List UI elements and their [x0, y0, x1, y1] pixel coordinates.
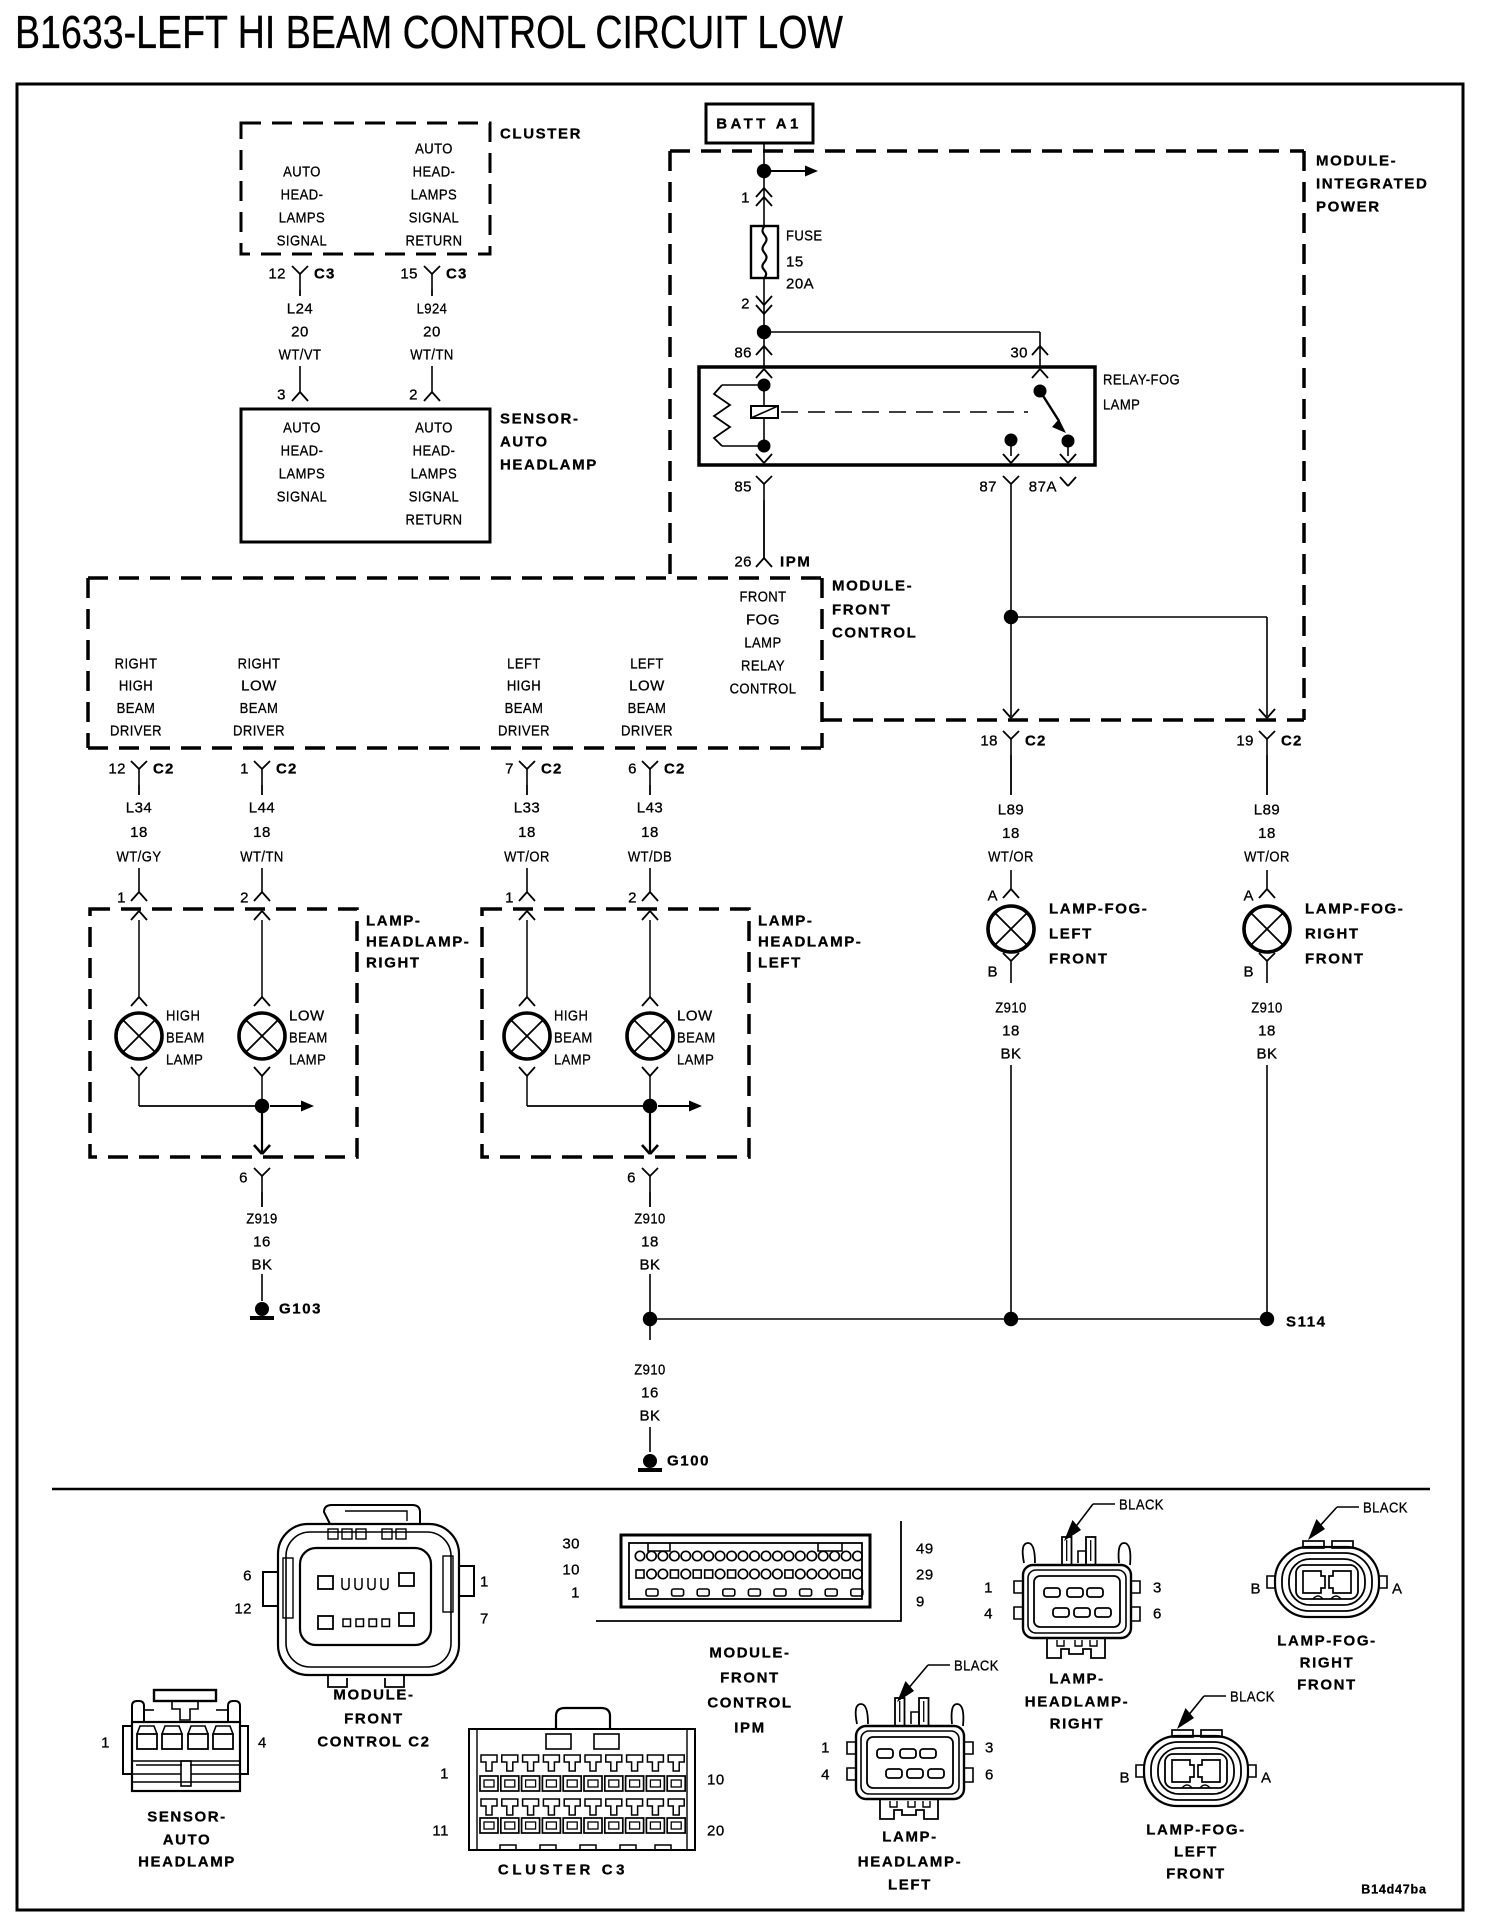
svg-text:HEADLAMP-: HEADLAMP- — [758, 933, 862, 950]
module-integrated power box — [670, 149, 1304, 153]
svg-text:4: 4 — [984, 1605, 993, 1622]
wire 85 to IPM 26 — [763, 500, 765, 558]
high beam lamp — [116, 1013, 162, 1059]
ground G100 — [643, 1454, 657, 1468]
svg-text:LAMP-FOG-: LAMP-FOG- — [1049, 900, 1148, 917]
svg-text:20A: 20A — [786, 275, 814, 292]
svg-text:AUTO: AUTO — [415, 419, 453, 436]
svg-text:LAMP-FOG-: LAMP-FOG- — [1146, 1821, 1245, 1838]
svg-text:6: 6 — [627, 1169, 636, 1186]
svg-text:10: 10 — [707, 1771, 725, 1788]
sensor-auto headlamp connector view — [123, 1690, 248, 1791]
svg-text:BEAM: BEAM — [117, 699, 156, 716]
svg-text:LAMP: LAMP — [166, 1051, 203, 1068]
relay exit chevrons — [756, 454, 764, 463]
module-front control IPM connector view — [621, 1535, 870, 1607]
svg-text:FRONT: FRONT — [344, 1710, 404, 1727]
svg-text:18: 18 — [980, 732, 998, 749]
wire L-circuit pin 15 — [431, 290, 433, 296]
svg-text:HEADLAMP-: HEADLAMP- — [366, 933, 470, 950]
svg-text:RIGHT: RIGHT — [1300, 1654, 1355, 1671]
svg-text:FRONT: FRONT — [739, 588, 786, 605]
svg-text:RIGHT: RIGHT — [366, 954, 421, 971]
headlamp pin 2 — [261, 868, 263, 892]
svg-text:HEADLAMP: HEADLAMP — [500, 456, 598, 473]
svg-text:LAMP-: LAMP- — [882, 1828, 938, 1845]
svg-text:FRONT: FRONT — [1166, 1865, 1226, 1882]
svg-text:RIGHT: RIGHT — [238, 655, 281, 672]
svg-text:B: B — [1243, 963, 1254, 980]
svg-text:LEFT: LEFT — [888, 1876, 932, 1893]
junction fuse out — [757, 325, 771, 339]
svg-text:1: 1 — [440, 1765, 449, 1782]
svg-text:BEAM: BEAM — [677, 1029, 716, 1046]
cluster box — [241, 123, 490, 254]
svg-text:16: 16 — [641, 1384, 659, 1401]
svg-text:B: B — [1119, 1769, 1130, 1786]
svg-text:HIGH: HIGH — [166, 1007, 200, 1024]
svg-text:WT/DB: WT/DB — [628, 848, 672, 865]
svg-text:1: 1 — [505, 889, 514, 906]
svg-text:LOW: LOW — [677, 1007, 713, 1024]
entry chevrons into headlamp box — [519, 911, 527, 920]
wire batt to fuse — [763, 143, 765, 226]
svg-text:BLACK: BLACK — [954, 1657, 999, 1674]
svg-text:18: 18 — [253, 824, 271, 841]
svg-text:SENSOR-: SENSOR- — [147, 1808, 227, 1825]
svg-text:RIGHT: RIGHT — [1305, 925, 1360, 942]
splice S114 — [1260, 1312, 1274, 1326]
svg-text:L89: L89 — [998, 801, 1025, 818]
svg-text:AUTO: AUTO — [283, 163, 321, 180]
svg-text:AUTO: AUTO — [415, 140, 453, 157]
svg-text:L44: L44 — [249, 799, 276, 816]
svg-text:86: 86 — [734, 344, 752, 361]
wire to G103 — [261, 1274, 263, 1301]
svg-text:RETURN: RETURN — [406, 511, 463, 528]
svg-text:7: 7 — [480, 1610, 489, 1627]
svg-text:FRONT: FRONT — [832, 601, 892, 618]
svg-text:LAMP-: LAMP- — [758, 912, 814, 929]
svg-text:INTEGRATED: INTEGRATED — [1316, 175, 1428, 192]
svg-text:DRIVER: DRIVER — [498, 721, 550, 738]
svg-text:1: 1 — [984, 1579, 993, 1596]
svg-text:4: 4 — [821, 1766, 830, 1783]
BATT A1 feed box — [706, 104, 813, 143]
svg-text:SIGNAL: SIGNAL — [277, 488, 327, 505]
svg-text:HIGH: HIGH — [554, 1007, 588, 1024]
svg-text:A: A — [1243, 887, 1254, 904]
svg-text:85: 85 — [734, 478, 752, 495]
svg-text:A: A — [1392, 1580, 1403, 1597]
lamp bottom chevrons — [131, 1067, 139, 1076]
sensor pin 2 — [431, 366, 433, 392]
ground G103 — [255, 1302, 269, 1316]
svg-text:DRIVER: DRIVER — [110, 721, 162, 738]
svg-text:6: 6 — [239, 1169, 248, 1186]
relay coil resistor — [722, 384, 764, 386]
svg-text:6: 6 — [628, 760, 637, 777]
svg-text:AUTO: AUTO — [500, 433, 549, 450]
lamp-fog-right-front connector view — [1267, 1541, 1387, 1617]
lamp common wires — [526, 1076, 528, 1106]
svg-text:CLUSTER C3: CLUSTER C3 — [498, 1861, 628, 1878]
svg-text:BEAM: BEAM — [240, 699, 279, 716]
svg-text:18: 18 — [1002, 1022, 1020, 1039]
svg-text:WT/GY: WT/GY — [117, 848, 162, 865]
headlamp pin 1 — [138, 868, 140, 892]
fog ground wire — [1266, 1065, 1268, 1319]
svg-text:RELAY: RELAY — [741, 657, 785, 674]
svg-text:18: 18 — [1258, 1022, 1276, 1039]
svg-text:FRONT: FRONT — [1297, 1676, 1357, 1693]
svg-text:20: 20 — [423, 323, 441, 340]
svg-text:LAMP-FOG-: LAMP-FOG- — [1305, 900, 1404, 917]
svg-text:HEADLAMP: HEADLAMP — [138, 1853, 236, 1870]
svg-text:LAMP: LAMP — [1103, 396, 1140, 413]
fog ground wire — [1010, 1065, 1012, 1319]
svg-text:Z919: Z919 — [246, 1210, 277, 1227]
svg-text:BEAM: BEAM — [505, 699, 544, 716]
svg-text:BLACK: BLACK — [1363, 1499, 1408, 1516]
svg-text:20: 20 — [707, 1822, 725, 1839]
svg-text:LEFT: LEFT — [1174, 1843, 1218, 1860]
svg-text:B14d47ba: B14d47ba — [1361, 1883, 1427, 1897]
svg-text:LEFT: LEFT — [507, 655, 541, 672]
svg-text:C3: C3 — [446, 265, 468, 282]
splice junction Z910 — [643, 1312, 657, 1326]
svg-text:RELAY-FOG: RELAY-FOG — [1103, 371, 1180, 388]
svg-text:C2: C2 — [664, 760, 686, 777]
svg-text:WT/OR: WT/OR — [988, 848, 1034, 865]
svg-text:SIGNAL: SIGNAL — [277, 232, 327, 249]
svg-text:S114: S114 — [1286, 1313, 1327, 1330]
junction in headlamp — [255, 1099, 269, 1113]
sensor-auto headlamp box — [241, 409, 490, 542]
relay-fog lamp box — [699, 367, 1095, 465]
svg-text:1: 1 — [480, 1573, 489, 1590]
svg-text:POWER: POWER — [1316, 198, 1381, 215]
svg-text:LEFT: LEFT — [1049, 925, 1093, 942]
module-front control C2 connector view — [263, 1505, 474, 1687]
entry chevrons into headlamp box — [131, 911, 139, 920]
cluster C3 connector view — [469, 1708, 695, 1850]
svg-text:4: 4 — [258, 1734, 267, 1751]
svg-text:16: 16 — [253, 1233, 271, 1250]
svg-text:CONTROL: CONTROL — [707, 1694, 792, 1711]
lamp-headlamp-right connector view — [1014, 1537, 1140, 1658]
relay contact — [1034, 385, 1047, 398]
svg-text:1: 1 — [821, 1739, 830, 1756]
svg-text:18: 18 — [1258, 825, 1276, 842]
relay coil wire — [763, 380, 765, 406]
svg-text:RIGHT: RIGHT — [115, 655, 158, 672]
svg-text:L43: L43 — [637, 799, 664, 816]
svg-text:C2: C2 — [153, 760, 175, 777]
svg-text:L924: L924 — [417, 300, 448, 317]
lamp common wires — [138, 1076, 140, 1106]
svg-text:WT/OR: WT/OR — [1244, 848, 1290, 865]
svg-text:DRIVER: DRIVER — [233, 721, 285, 738]
relay pin 87 stub — [1005, 434, 1018, 447]
svg-text:CONTROL C2: CONTROL C2 — [317, 1733, 430, 1750]
svg-text:HEAD-: HEAD- — [413, 442, 456, 459]
svg-text:HIGH: HIGH — [119, 677, 153, 694]
svg-text:WT/TN: WT/TN — [410, 346, 453, 363]
svg-text:WT/VT: WT/VT — [279, 346, 322, 363]
svg-text:MODULE-: MODULE- — [333, 1686, 414, 1703]
IPM bracket — [596, 1521, 901, 1621]
svg-text:BEAM: BEAM — [289, 1029, 328, 1046]
lamp-headlamp-left connector view — [847, 1698, 973, 1819]
svg-text:LAMPS: LAMPS — [411, 465, 457, 482]
splice on fog left — [1004, 1312, 1018, 1326]
svg-text:HIGH: HIGH — [507, 677, 541, 694]
svg-text:WT/TN: WT/TN — [240, 848, 283, 865]
svg-text:6: 6 — [1153, 1605, 1162, 1622]
svg-text:1: 1 — [117, 889, 126, 906]
svg-text:3: 3 — [985, 1739, 994, 1756]
arrow right inside headlamp — [658, 1105, 692, 1107]
svg-text:FRONT: FRONT — [1049, 950, 1109, 967]
svg-text:12: 12 — [268, 265, 286, 282]
svg-text:11: 11 — [432, 1822, 449, 1839]
svg-text:IPM: IPM — [734, 1719, 765, 1736]
module-front control box — [88, 576, 822, 580]
svg-text:C2: C2 — [276, 760, 298, 777]
svg-text:LAMP: LAMP — [289, 1051, 326, 1068]
svg-text:87: 87 — [979, 478, 997, 495]
svg-text:C2: C2 — [1281, 732, 1303, 749]
svg-text:HEAD-: HEAD- — [281, 442, 324, 459]
exit arrows at MIP bottom — [1003, 709, 1011, 718]
svg-text:3: 3 — [277, 386, 286, 403]
svg-text:15: 15 — [400, 265, 418, 282]
svg-text:18: 18 — [1002, 825, 1020, 842]
svg-text:SENSOR-: SENSOR- — [500, 410, 580, 427]
relay coil element — [751, 406, 778, 418]
lamp-fog right front — [1244, 906, 1290, 952]
wires to lamps — [138, 920, 140, 997]
svg-text:L89: L89 — [1254, 801, 1281, 818]
svg-text:BATT A1: BATT A1 — [716, 115, 801, 132]
svg-text:AUTO: AUTO — [163, 1831, 212, 1848]
svg-text:6: 6 — [985, 1766, 994, 1783]
svg-text:30: 30 — [562, 1535, 580, 1552]
svg-text:1: 1 — [101, 1734, 110, 1751]
svg-text:HEADLAMP-: HEADLAMP- — [1025, 1693, 1129, 1710]
svg-text:LAMP: LAMP — [677, 1051, 714, 1068]
svg-text:9: 9 — [916, 1593, 925, 1610]
svg-text:12: 12 — [108, 760, 126, 777]
svg-text:LAMP-FOG-: LAMP-FOG- — [1277, 1632, 1376, 1649]
svg-text:BK: BK — [1000, 1045, 1021, 1062]
svg-text:1: 1 — [571, 1584, 580, 1601]
headlamp pin 1 — [526, 868, 528, 892]
svg-text:10: 10 — [562, 1561, 580, 1578]
svg-text:RIGHT: RIGHT — [1050, 1715, 1105, 1732]
svg-text:LOW: LOW — [289, 1007, 325, 1024]
svg-text:LAMPS: LAMPS — [279, 209, 325, 226]
arrow to right from batt junction — [768, 170, 808, 172]
svg-text:1: 1 — [240, 760, 249, 777]
svg-text:LAMPS: LAMPS — [279, 465, 325, 482]
fog lamp pin A — [1010, 870, 1012, 889]
lamp-fog-left-front connector view — [1136, 1730, 1256, 1806]
svg-text:L34: L34 — [126, 799, 153, 816]
svg-text:Z910: Z910 — [1251, 999, 1282, 1016]
lamp-fog left front — [988, 906, 1034, 952]
svg-text:BK: BK — [251, 1256, 272, 1273]
svg-text:B1633-LEFT HI BEAM CONTROL CIR: B1633-LEFT HI BEAM CONTROL CIRCUIT LOW — [15, 6, 843, 58]
fog lamp pin B — [1259, 953, 1267, 961]
fog lamp pin A — [1266, 870, 1268, 889]
svg-text:G100: G100 — [667, 1452, 710, 1469]
svg-text:BK: BK — [1256, 1045, 1277, 1062]
lamp-headlamp-right box — [90, 909, 357, 1157]
svg-text:2: 2 — [240, 889, 249, 906]
svg-text:FOG: FOG — [746, 611, 780, 628]
splice bus wire — [650, 1318, 1267, 1320]
wire fuse to relay — [763, 278, 765, 367]
svg-text:DRIVER: DRIVER — [621, 721, 673, 738]
svg-text:2: 2 — [628, 889, 637, 906]
svg-text:18: 18 — [518, 824, 536, 841]
relay link dashed — [781, 411, 1028, 413]
wire to relay pin 30 — [764, 331, 1040, 333]
svg-text:L33: L33 — [514, 799, 541, 816]
svg-text:MODULE-: MODULE- — [832, 577, 913, 594]
svg-text:2: 2 — [741, 295, 750, 312]
junction at batt feed — [757, 164, 771, 178]
svg-text:BK: BK — [639, 1256, 660, 1273]
svg-text:18: 18 — [130, 824, 148, 841]
svg-text:12: 12 — [234, 1600, 252, 1617]
svg-text:RETURN: RETURN — [406, 232, 463, 249]
svg-text:L24: L24 — [287, 300, 314, 317]
svg-text:CONTROL: CONTROL — [730, 680, 797, 697]
svg-text:29: 29 — [916, 1566, 934, 1583]
separator line — [52, 1488, 1430, 1491]
low beam lamp — [239, 1013, 285, 1059]
svg-text:18: 18 — [641, 824, 659, 841]
svg-text:A: A — [1261, 1769, 1272, 1786]
svg-text:7: 7 — [505, 760, 514, 777]
svg-text:HEADLAMP-: HEADLAMP- — [858, 1853, 962, 1870]
svg-text:LAMP: LAMP — [554, 1051, 591, 1068]
svg-text:19: 19 — [1236, 732, 1254, 749]
svg-text:Z910: Z910 — [634, 1361, 665, 1378]
svg-text:BEAM: BEAM — [554, 1029, 593, 1046]
svg-text:B: B — [987, 963, 998, 980]
junction 87 wire — [1004, 610, 1018, 624]
sensor pin 3 — [299, 366, 301, 392]
svg-text:IPM: IPM — [780, 553, 811, 570]
wire to pin 19 — [1011, 616, 1267, 618]
svg-text:49: 49 — [916, 1540, 934, 1557]
svg-text:FRONT: FRONT — [1305, 950, 1365, 967]
svg-text:WT/OR: WT/OR — [504, 848, 550, 865]
svg-text:CONTROL: CONTROL — [832, 624, 917, 641]
svg-text:A: A — [987, 887, 998, 904]
wire L-circuit pin 12 — [299, 290, 301, 296]
svg-text:C2: C2 — [541, 760, 563, 777]
svg-text:HEAD-: HEAD- — [281, 186, 324, 203]
svg-text:CLUSTER: CLUSTER — [500, 125, 582, 142]
svg-text:LEFT: LEFT — [630, 655, 664, 672]
wire 87 to pin 18 — [1010, 617, 1012, 716]
wire to pin 6 — [649, 1106, 651, 1152]
junction in headlamp — [643, 1099, 657, 1113]
svg-text:87A: 87A — [1029, 478, 1057, 495]
low beam lamp — [627, 1013, 673, 1059]
svg-text:2: 2 — [409, 386, 418, 403]
svg-text:BK: BK — [639, 1407, 660, 1424]
svg-text:AUTO: AUTO — [283, 419, 321, 436]
svg-text:SIGNAL: SIGNAL — [409, 488, 459, 505]
svg-text:BEAM: BEAM — [166, 1029, 205, 1046]
svg-text:MODULE-: MODULE- — [709, 1644, 790, 1661]
svg-text:C3: C3 — [314, 265, 336, 282]
svg-text:30: 30 — [1010, 344, 1028, 361]
svg-text:BEAM: BEAM — [628, 699, 667, 716]
arrow right inside headlamp — [270, 1105, 304, 1107]
svg-text:LOW: LOW — [241, 678, 277, 695]
svg-text:B: B — [1250, 1580, 1261, 1597]
svg-text:HEAD-: HEAD- — [413, 163, 456, 180]
lamp-headlamp-left box — [482, 909, 749, 1157]
svg-text:MODULE-: MODULE- — [1316, 152, 1397, 169]
relay entry chevrons — [756, 369, 764, 378]
svg-text:SIGNAL: SIGNAL — [409, 209, 459, 226]
wire to pin 6 — [261, 1106, 263, 1152]
svg-text:LAMPS: LAMPS — [411, 186, 457, 203]
fog lamp pin B — [1003, 953, 1011, 961]
fuse 15 20A — [751, 226, 778, 278]
svg-text:3: 3 — [1153, 1579, 1162, 1596]
svg-text:20: 20 — [291, 323, 309, 340]
wires to lamps — [526, 920, 528, 997]
headlamp pin 2 — [649, 868, 651, 892]
svg-text:LAMP-: LAMP- — [366, 912, 422, 929]
svg-text:LOW: LOW — [629, 678, 665, 695]
svg-text:LAMP: LAMP — [744, 634, 781, 651]
svg-text:C2: C2 — [1025, 732, 1047, 749]
svg-text:LEFT: LEFT — [758, 954, 802, 971]
svg-text:BLACK: BLACK — [1230, 1688, 1275, 1705]
svg-text:BLACK: BLACK — [1119, 1496, 1164, 1513]
svg-text:1: 1 — [741, 189, 750, 206]
svg-text:FUSE: FUSE — [786, 227, 823, 244]
wire 87 down — [1010, 500, 1012, 617]
svg-text:6: 6 — [243, 1567, 252, 1584]
svg-text:Z910: Z910 — [634, 1210, 665, 1227]
svg-text:15: 15 — [786, 253, 804, 270]
wire left-headlamp to splice — [649, 1274, 651, 1319]
svg-text:18: 18 — [641, 1233, 659, 1250]
svg-text:G103: G103 — [279, 1300, 322, 1317]
lamp bottom chevrons — [519, 1067, 527, 1076]
svg-text:LAMP-: LAMP- — [1049, 1670, 1105, 1687]
svg-text:Z910: Z910 — [995, 999, 1026, 1016]
high beam lamp — [504, 1013, 550, 1059]
svg-text:FRONT: FRONT — [720, 1669, 780, 1686]
svg-text:26: 26 — [734, 553, 752, 570]
